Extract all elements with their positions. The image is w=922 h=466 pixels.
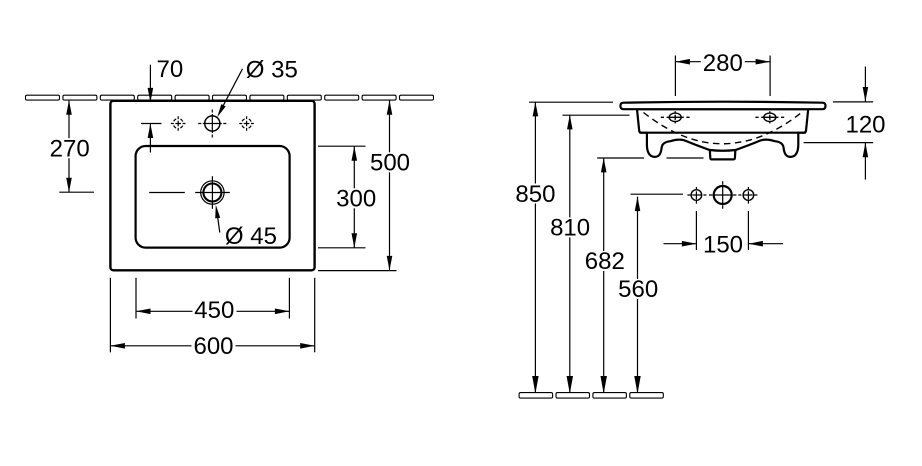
dim 682 extension line right segment (667, 157, 704, 159)
dim 300 extension lines (318, 146, 366, 248)
dim 560 line (637, 197, 639, 392)
dim 810 arrow up (567, 115, 573, 129)
svg-text:850: 850 (515, 181, 555, 208)
basin silhouette body+legs+apron (637, 109, 808, 157)
leader Ø35 (219, 69, 243, 114)
dim 450 arrow right (275, 309, 290, 315)
mounting hole right (738, 187, 757, 204)
svg-text:Ø 35: Ø 35 (246, 57, 298, 84)
dim 70 upper line + arrow down (149, 65, 151, 102)
dim 682 arrow up (601, 158, 607, 173)
dim 600 arrow left (110, 343, 125, 349)
leader Ø45 (217, 210, 220, 233)
dim 600 label (192, 335, 236, 355)
drain hole Ø45 (149, 176, 230, 209)
dim 850 arrow up (533, 102, 539, 117)
dim 850 line (534, 102, 536, 392)
basin inner bowl rect (136, 146, 290, 248)
dim 560 arrow down (634, 376, 640, 394)
dim 500 label (369, 152, 411, 172)
floor hatch (4 tiles) (519, 393, 663, 399)
dim 300 label (336, 188, 378, 208)
front faucet hole right (755, 111, 784, 123)
svg-text:500: 500 (370, 150, 410, 177)
dim 70 reference tick (141, 123, 162, 125)
dim 450 arrow left (136, 309, 151, 315)
dim 270 line with arrows (59, 101, 94, 193)
dim 810 label (548, 217, 592, 237)
dim 500 line with arrows (318, 100, 397, 270)
svg-text:120: 120 (845, 112, 885, 139)
dim 280 arrow left (675, 59, 690, 65)
dim 150 arrow right (682, 241, 697, 247)
basin outer rim rect (110, 101, 314, 270)
dim 682 label (583, 251, 627, 271)
dim 682 arrow down (600, 376, 606, 394)
svg-text:Ø 45: Ø 45 (225, 223, 277, 250)
dim 270 label (49, 138, 91, 158)
svg-text:280: 280 (703, 50, 743, 77)
dim 280 line (675, 56, 770, 97)
dim 810 extension line (563, 114, 630, 116)
dim 810 arrow down (567, 376, 573, 394)
dim 150 (664, 211, 784, 250)
faucet hole right cross (239, 116, 254, 131)
dim 450 label (193, 300, 237, 320)
dim 500 arrow down (387, 256, 393, 271)
dim 810 line (569, 115, 571, 392)
dim 280 arrow right (756, 59, 771, 65)
svg-text:810: 810 (550, 215, 590, 242)
dim 270 arrow up (66, 100, 72, 115)
dim 682 extension line left segment (597, 157, 644, 159)
dim 120 arrow up (863, 143, 869, 158)
dim 850 label (514, 184, 558, 204)
faucet center hole Ø35 (198, 110, 226, 138)
dim 682 line (603, 158, 605, 392)
svg-text:300: 300 (336, 186, 376, 213)
basin bottom edge line (639, 132, 805, 134)
svg-text:450: 450 (194, 297, 234, 324)
svg-text:600: 600 (193, 333, 233, 360)
dim 500 arrow up (387, 100, 393, 115)
dim 600 extension + line (110, 278, 314, 353)
dim 150 arrow left (748, 241, 763, 247)
dim 270 arrow down (66, 178, 72, 193)
dim 120 arrow down (863, 87, 869, 102)
dim 850 arrow down (532, 376, 538, 394)
front faucet hole left (661, 111, 690, 123)
dim 450 extension + line (136, 278, 289, 319)
svg-text:150: 150 (703, 232, 743, 259)
dim 300 arrow down (352, 233, 358, 248)
basin slab (top rim) (620, 102, 825, 110)
wall hatch band (11 tiles) (26, 95, 434, 100)
dim 600 arrow right (300, 343, 315, 349)
faucet hole left cross (171, 116, 186, 131)
mounting hole center (709, 181, 736, 208)
drain stub (710, 150, 736, 159)
dim 70 lower line + arrow up (149, 124, 151, 153)
dim 280 label (701, 53, 745, 73)
dim 300 arrow up (352, 146, 358, 161)
svg-text:70: 70 (157, 56, 184, 83)
dim 120 line (804, 67, 874, 180)
dim 560 arrow up (635, 197, 641, 212)
dim 560 extension line (631, 193, 684, 195)
dim 850 extension line (529, 101, 613, 103)
dim 560 label (616, 279, 660, 299)
basin bowl dashed arc (644, 113, 802, 144)
mounting hole left (687, 187, 706, 204)
svg-text:560: 560 (618, 276, 658, 303)
svg-text:270: 270 (50, 136, 90, 163)
svg-text:682: 682 (585, 248, 625, 275)
